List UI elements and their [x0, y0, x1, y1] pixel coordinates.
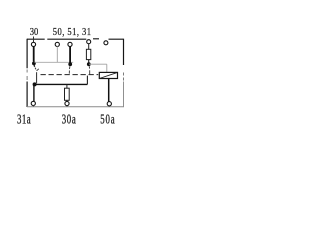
wire: resistor R2 to terminal 30a — [66, 100, 68, 101]
wire: resistor R1 to node — [88, 60, 90, 63]
wire: contact arm from terminal 51 — [69, 46, 71, 62]
switch housing outline: top edge — [27, 38, 124, 40]
terminal 50a circle — [107, 102, 111, 106]
moving contact tip 30 — [32, 62, 36, 66]
wiper bar (thin) — [35, 61, 74, 63]
wire: contact arm from terminal 30 — [33, 46, 35, 61]
svg-text:30a: 30a — [62, 113, 77, 127]
svg-text:30: 30 — [30, 27, 39, 38]
dashed contact travel 31 — [88, 66, 91, 74]
wire: node 31a down to terminal 31a — [33, 86, 35, 102]
terminal 30a circle — [65, 101, 69, 105]
wire: drop to resistor R2 — [66, 84, 68, 88]
terminal 51 circle — [68, 42, 72, 46]
svg-text:50, 51, 31: 50, 51, 31 — [53, 27, 92, 38]
node junction 31 — [87, 62, 91, 66]
wire: rail drop to node 31a — [36, 72, 38, 83]
dashed contact travel 51 — [68, 66, 71, 73]
terminal 50a tick — [108, 106, 110, 107]
terminal 30 pin stub — [33, 37, 35, 43]
moving contact tip 51 — [68, 62, 72, 66]
wire: coil to terminal 50a — [108, 79, 110, 102]
terminal 31a tick — [32, 105, 34, 107]
terminal 30 circle — [31, 42, 35, 46]
svg-text:31a: 31a — [17, 113, 31, 127]
wire: stub up to rail at right — [86, 76, 88, 85]
terminal 31 circle — [87, 40, 91, 44]
terminal 50 circle — [55, 42, 59, 46]
switch housing outline: bottom edge — [27, 106, 124, 108]
dashed contact travel 30 — [35, 68, 39, 71]
coil K1 body — [99, 72, 117, 78]
wire: stem of terminal 50 — [56, 46, 58, 62]
switch housing outline: left edge — [26, 39, 28, 107]
wire: stem of terminal 31 — [88, 44, 90, 50]
resistor R1 in line 31 — [86, 49, 90, 59]
terminal 31a circle — [31, 101, 35, 105]
terminal 30a tick — [66, 106, 68, 108]
node junction 31a — [33, 82, 37, 86]
spare terminal circle — [104, 41, 108, 45]
wire: node 31 to coil (thin) — [89, 64, 107, 72]
wire: node 31a horizontal run — [35, 83, 88, 85]
coil K1 diagonal — [99, 72, 117, 78]
switch housing outline: right edge — [123, 39, 125, 65]
svg-text:50a: 50a — [100, 113, 115, 127]
resistor R2 in line 30a — [65, 88, 70, 100]
mechanical linkage rail (dashed) — [41, 74, 99, 76]
